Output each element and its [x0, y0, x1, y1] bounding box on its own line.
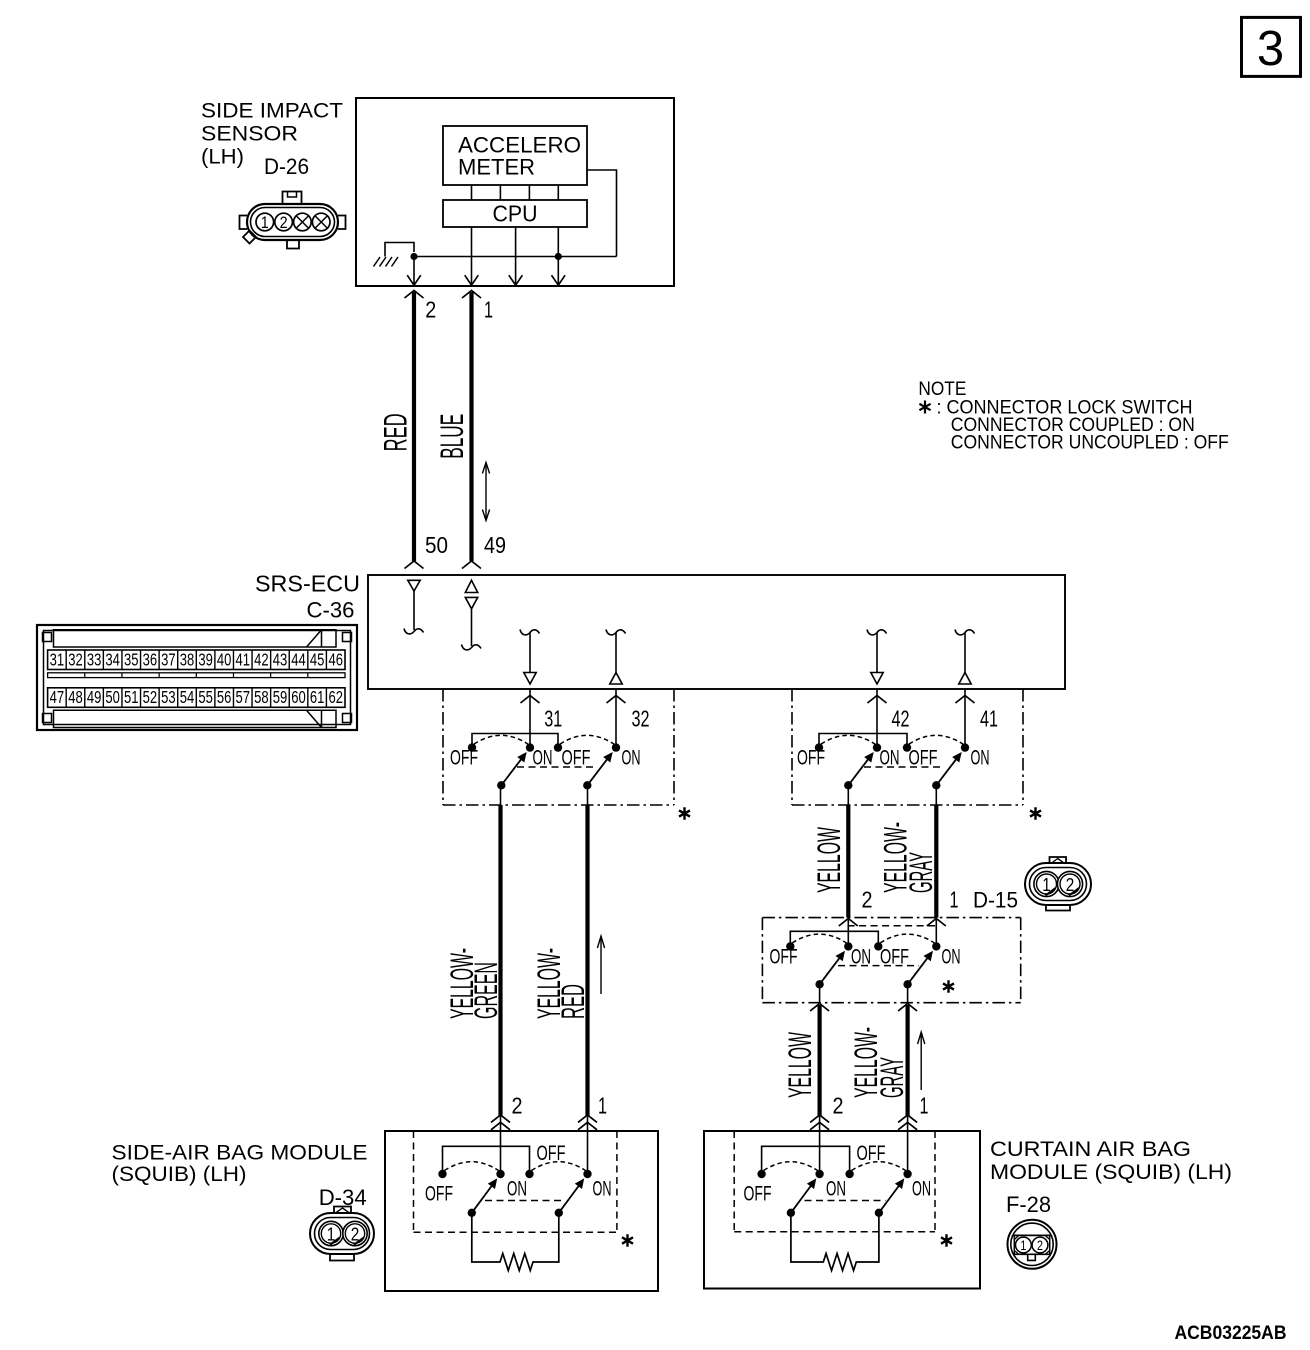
wire ecu pin 41 [964, 689, 966, 748]
node junction left [410, 253, 417, 260]
svg-text:40: 40 [217, 649, 232, 669]
svg-text:60: 60 [291, 687, 306, 707]
wire accelerometer to cpu links [471, 185, 473, 200]
asterisk squib right [941, 1234, 952, 1247]
curtain air bag module box [704, 1131, 980, 1289]
pin 1 chevron [462, 291, 481, 299]
svg-text:1: 1 [484, 297, 493, 323]
svg-text:1: 1 [1020, 1238, 1026, 1253]
asterisk D-15 box [943, 980, 954, 993]
wire squib left pin2 internal [500, 1115, 502, 1174]
chevron pin 32 [607, 696, 626, 704]
wire YELLOW-GRAY lower [905, 1005, 909, 1116]
svg-text:OFF: OFF [857, 1141, 886, 1165]
mechanical link 42 41 [864, 766, 944, 768]
svg-text:OFF: OFF [744, 1182, 772, 1206]
svg-text:GRAY: GRAY [874, 1057, 910, 1098]
svg-text:OFF: OFF [450, 746, 478, 770]
wire squib left pin1 internal [587, 1115, 589, 1174]
svg-text:ON: ON [912, 1177, 931, 1201]
wire YELLOW-GREEN [498, 805, 502, 1116]
svg-text:D-26: D-26 [264, 154, 309, 179]
svg-text:50: 50 [105, 687, 120, 707]
chevron wire49 at ECU [462, 561, 481, 569]
SRS-ECU box [368, 575, 1065, 689]
wire YELLOW-GRAY upper [934, 805, 938, 918]
ecu pin42 output symbol [867, 630, 887, 635]
svg-text:51: 51 [124, 687, 139, 707]
chevron D-15 wire1 exit [898, 1004, 917, 1012]
lock switches 31 32 [472, 734, 558, 746]
ecu pin50 input symbol [408, 580, 420, 591]
svg-text:OFF: OFF [909, 746, 938, 770]
svg-text:52: 52 [143, 687, 158, 707]
chevron pin 31 [521, 696, 540, 704]
side air bag module box [385, 1131, 658, 1291]
svg-text:ACB03225AB: ACB03225AB [1175, 1323, 1287, 1344]
svg-text:OFF: OFF [770, 945, 798, 969]
connector lock switch box D-15 [762, 917, 1020, 919]
mechanical link 31 32 [517, 766, 596, 768]
chevron wire50 at ECU [405, 561, 424, 569]
svg-text:58: 58 [254, 687, 269, 707]
squib resistor left [472, 1213, 559, 1271]
direction arrow yellow-red [600, 938, 602, 994]
svg-text:53: 53 [161, 687, 176, 707]
dashed lines D-15 [848, 925, 937, 927]
chevrons curtain wire2 [810, 1115, 829, 1123]
svg-text:55: 55 [198, 687, 213, 707]
connector F-28 icon [1008, 1220, 1057, 1269]
svg-text:RED: RED [377, 413, 413, 451]
svg-text:31: 31 [544, 706, 562, 732]
connector D-26 icon [247, 204, 338, 240]
svg-text:2: 2 [425, 297, 436, 323]
page number box 3 [1242, 17, 1301, 76]
svg-text:F-28: F-28 [1006, 1192, 1051, 1217]
wire D-15 sw1 down [907, 984, 909, 1002]
svg-text:56: 56 [217, 687, 232, 707]
wire YELLOW lower [817, 1005, 821, 1116]
ground [385, 243, 414, 257]
lock switches 42 41 [819, 734, 907, 746]
svg-text:ON: ON [533, 746, 553, 770]
svg-text:35: 35 [124, 649, 139, 669]
svg-text:46: 46 [328, 649, 343, 669]
connector D-15 icon [1025, 863, 1091, 905]
asterisk squib left [622, 1234, 633, 1247]
svg-text:D-15: D-15 [973, 888, 1018, 913]
wire ecu pin 42 [876, 689, 878, 748]
svg-text:57: 57 [236, 687, 251, 707]
svg-text:ON: ON [622, 746, 641, 770]
wire squib right pin2 internal [819, 1115, 821, 1174]
wire cpu outputs down [413, 257, 415, 287]
svg-text:1: 1 [327, 1225, 336, 1245]
svg-text:54: 54 [180, 687, 195, 707]
svg-text:YELLOW: YELLOW [782, 1032, 818, 1098]
svg-text:ON: ON [826, 1177, 846, 1201]
svg-text:GRAY: GRAY [903, 852, 939, 893]
chevron D-15 wire2 entry [839, 919, 858, 927]
wire YELLOW-RED [585, 805, 589, 1116]
connector lock switch box C-36 side [442, 689, 444, 805]
chevrons curtain wire1 [898, 1115, 917, 1123]
svg-text:SIDE IMPACT: SIDE IMPACT [201, 99, 343, 123]
ecu pin31 output symbol [520, 630, 540, 635]
svg-text:C-36: C-36 [307, 598, 355, 623]
chevron pin 42 [868, 696, 887, 704]
chevron D-15 wire1 entry [927, 919, 946, 927]
connector C-36 pinout drawing [37, 625, 357, 730]
svg-text:CONNECTOR UNCOUPLED : OFF: CONNECTOR UNCOUPLED : OFF [951, 433, 1229, 454]
svg-text:43: 43 [273, 649, 288, 669]
svg-text:37: 37 [161, 649, 176, 669]
svg-text:33: 33 [87, 649, 102, 669]
svg-text:SENSOR: SENSOR [201, 121, 298, 145]
svg-text:39: 39 [198, 649, 213, 669]
svg-text:OFF: OFF [880, 945, 909, 969]
cpu box [443, 200, 587, 227]
svg-text:OFF: OFF [425, 1182, 453, 1206]
mechanical link squib right [805, 1200, 886, 1202]
wire squib right pin1 internal [907, 1115, 909, 1174]
wire D-15 pin2 internal [847, 918, 849, 947]
svg-text:SIDE-AIR BAG MODULE: SIDE-AIR BAG MODULE [112, 1141, 368, 1165]
svg-text:36: 36 [143, 649, 158, 669]
svg-text:BLUE: BLUE [434, 414, 470, 459]
svg-text:62: 62 [328, 687, 343, 707]
connector lock switch box C-36 right side [791, 689, 793, 805]
svg-text:1: 1 [1042, 875, 1051, 895]
svg-text:METER: METER [458, 155, 535, 180]
svg-text:32: 32 [68, 649, 83, 669]
svg-text:OFF: OFF [797, 746, 825, 770]
ecu pin41 output symbol [955, 630, 975, 635]
wire RED [412, 292, 416, 561]
squib dashed box right [733, 1131, 735, 1232]
squib resistor right [791, 1213, 879, 1271]
svg-text:34: 34 [105, 649, 120, 669]
chevrons side module wire1 [578, 1115, 597, 1123]
svg-text:49: 49 [87, 687, 102, 707]
svg-text:ON: ON [971, 746, 990, 770]
squib dashed box left [413, 1131, 415, 1232]
svg-text:ON: ON [507, 1177, 527, 1201]
svg-text:OFF: OFF [562, 746, 591, 770]
svg-text:(SQUIB) (LH): (SQUIB) (LH) [112, 1162, 247, 1186]
ecu pin32 output symbol [606, 630, 626, 635]
svg-text:31: 31 [50, 649, 65, 669]
svg-text:1: 1 [950, 887, 959, 913]
mechanical link squib left [485, 1200, 562, 1202]
svg-text:41: 41 [980, 706, 998, 732]
svg-text:GREEN: GREEN [468, 962, 504, 1019]
chevrons side module wire2 [491, 1115, 510, 1123]
svg-text:1: 1 [598, 1093, 607, 1119]
wire ecu pin 31 [529, 689, 531, 748]
svg-text:47: 47 [50, 687, 65, 707]
svg-text:SRS-ECU: SRS-ECU [255, 571, 360, 597]
svg-text:42: 42 [892, 706, 910, 732]
svg-text:32: 32 [632, 706, 650, 732]
chevron D-15 wire2 exit [810, 1004, 829, 1012]
squib switches right [762, 1146, 850, 1172]
svg-text:2: 2 [862, 887, 873, 913]
svg-text:3: 3 [1257, 22, 1284, 76]
svg-text:2: 2 [351, 1225, 360, 1245]
svg-text:2: 2 [1037, 1238, 1043, 1253]
svg-text:2: 2 [1066, 875, 1075, 895]
pin 2 chevron [405, 291, 424, 299]
svg-text:44: 44 [291, 649, 306, 669]
chevron pin 41 [956, 696, 975, 704]
wire switch41 down [935, 785, 937, 805]
node junction right [555, 253, 562, 260]
svg-text:CPU: CPU [493, 201, 538, 227]
svg-text:2: 2 [833, 1093, 844, 1119]
wire ecu pin 32 [615, 689, 617, 748]
svg-text:2: 2 [512, 1093, 523, 1119]
svg-text:2: 2 [280, 214, 288, 232]
wire BLUE [469, 292, 473, 561]
svg-text:61: 61 [310, 687, 325, 707]
wire switch42 down [847, 785, 849, 805]
wire D-15 pin1 internal [935, 918, 937, 947]
svg-text:YELLOW: YELLOW [811, 827, 847, 893]
svg-text:ON: ON [880, 746, 900, 770]
accelerometer box [443, 126, 587, 185]
wire D-15 sw2 down [819, 984, 821, 1002]
svg-text:59: 59 [273, 687, 288, 707]
svg-text:1: 1 [261, 214, 269, 232]
svg-text:ON: ON [942, 945, 961, 969]
wire internal ground bus [414, 256, 617, 258]
wire switch32 down [587, 785, 589, 805]
svg-text:OFF: OFF [537, 1141, 566, 1165]
side impact sensor box [356, 98, 674, 286]
svg-text:ON: ON [593, 1177, 612, 1201]
svg-text:45: 45 [310, 649, 325, 669]
svg-text:42: 42 [254, 649, 269, 669]
svg-text:38: 38 [180, 649, 195, 669]
svg-text:48: 48 [68, 687, 83, 707]
svg-text:CURTAIN AIR BAG: CURTAIN AIR BAG [990, 1137, 1191, 1161]
svg-text:1: 1 [920, 1093, 929, 1119]
lock switches D-15 [790, 931, 878, 944]
svg-text:49: 49 [484, 532, 506, 558]
svg-text:50: 50 [425, 532, 448, 558]
direction arrow yellow-gray [920, 1034, 922, 1090]
svg-text:41: 41 [236, 649, 251, 669]
bidirectional arrow [485, 464, 487, 519]
svg-text:(LH): (LH) [201, 145, 244, 169]
asterisk right lock box [1030, 807, 1041, 820]
svg-text:ON: ON [851, 945, 871, 969]
wire switch31 down [500, 785, 502, 805]
svg-text:MODULE (SQUIB) (LH): MODULE (SQUIB) (LH) [990, 1160, 1232, 1184]
connector D-34 icon [310, 1213, 374, 1254]
squib switches left [443, 1146, 530, 1172]
wire accelerometer right loop [587, 170, 617, 257]
svg-text:RED: RED [555, 984, 591, 1019]
wire YELLOW upper [846, 805, 850, 918]
sensor box output arrows [407, 275, 421, 285]
ecu pin49 input symbol [465, 580, 477, 592]
asterisk left lock box [679, 807, 690, 820]
